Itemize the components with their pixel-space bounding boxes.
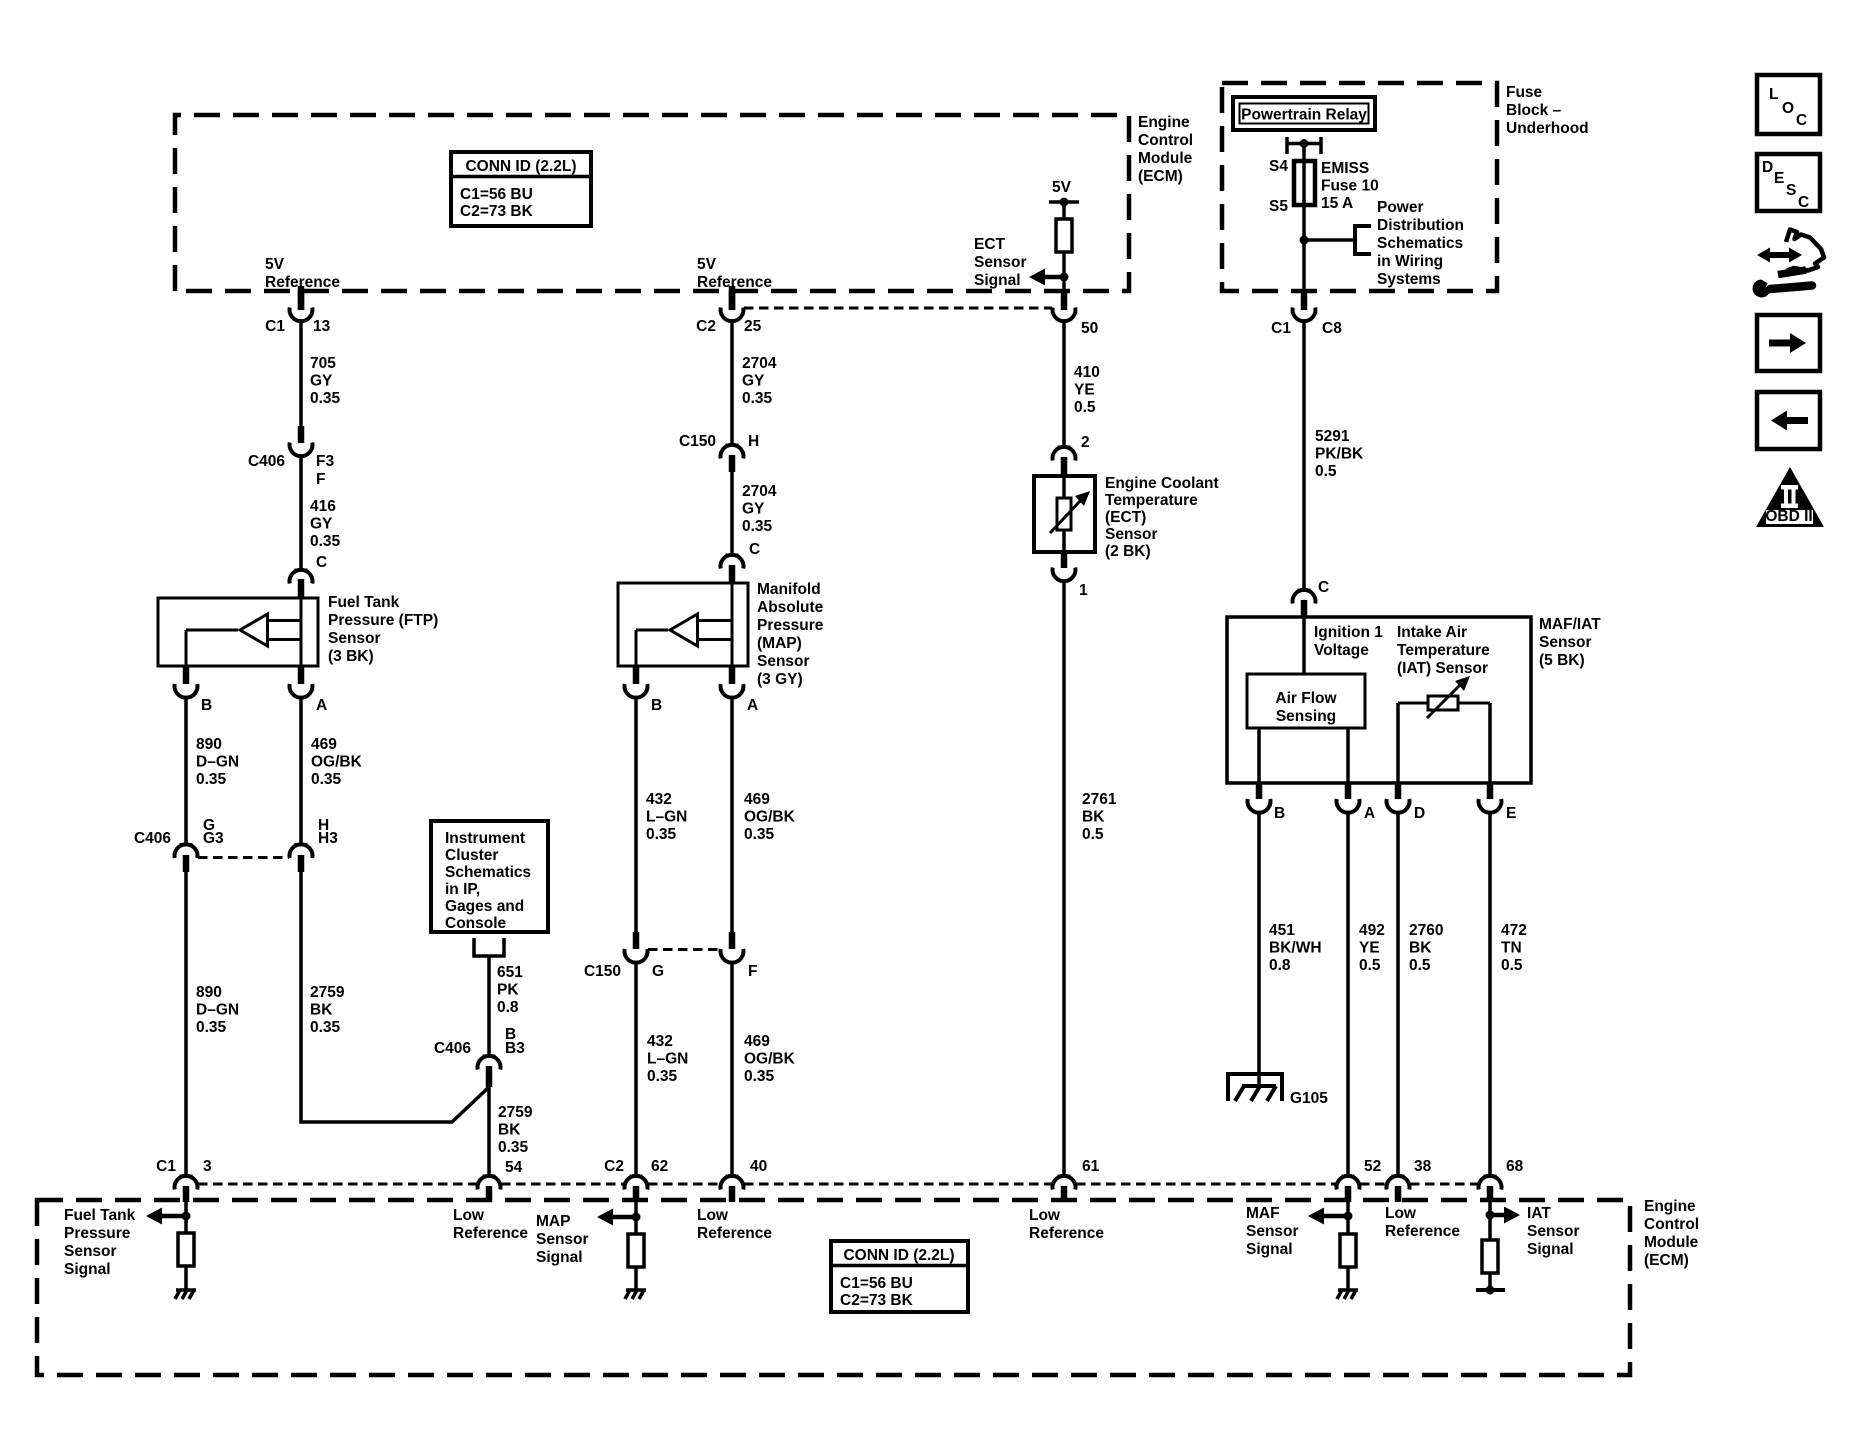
resistor pin3	[178, 1233, 194, 1266]
wire air flow pin A inner	[1346, 728, 1350, 783]
dashed link G F	[648, 948, 720, 951]
connector ECT pin 2	[1053, 447, 1076, 476]
connector C406 B3	[478, 1056, 501, 1087]
svg-text:38: 38	[1414, 1158, 1432, 1175]
connector MAF pin D	[1387, 783, 1410, 813]
connector MAF pin E	[1479, 783, 1502, 813]
connector ECT pin 1	[1053, 552, 1076, 581]
junction dot pin52	[1344, 1212, 1353, 1221]
svg-text:54: 54	[505, 1159, 523, 1176]
junction dot pin62	[632, 1213, 641, 1222]
svg-text:A: A	[747, 697, 758, 714]
svg-text:C1: C1	[156, 1158, 176, 1175]
wire 651 PK	[487, 956, 491, 1056]
svg-text:D: D	[1414, 805, 1425, 822]
wire pin62 to junction	[634, 1202, 638, 1234]
connector FTP pin B	[175, 666, 198, 698]
connector C2 pin 25	[721, 291, 744, 321]
wire 890 D-GN upper	[184, 697, 188, 844]
power distribution bracket	[1355, 224, 1371, 256]
wire relay to fuse	[1302, 144, 1306, 162]
icon DESC box	[1757, 154, 1820, 211]
FTP sensor box	[158, 598, 318, 666]
svg-text:C: C	[749, 541, 760, 558]
MAF IAT sensor box	[1227, 617, 1531, 783]
svg-text:C2=73 BK: C2=73 BK	[460, 203, 534, 220]
junction dot power distribution tap	[1300, 236, 1309, 245]
wire 2704 GY lower	[730, 472, 734, 555]
svg-text:13: 13	[313, 318, 331, 335]
wire fuse to junction	[1302, 205, 1306, 240]
dashed link G3 H3	[198, 856, 289, 859]
resistor pin62	[628, 1234, 644, 1267]
wire 432 L-GN lower	[634, 962, 638, 1176]
svg-text:C406: C406	[134, 830, 171, 847]
wire 410 YE	[1062, 320, 1066, 447]
icon arrow right box	[1757, 315, 1820, 371]
connector C150 F	[721, 932, 744, 963]
Fuse Block - Underhood dashed box	[1222, 83, 1497, 291]
stub 5V ref mid	[729, 286, 736, 310]
icon wrench tool	[1753, 230, 1824, 298]
svg-text:C8: C8	[1322, 320, 1342, 337]
svg-text:B3: B3	[505, 1040, 525, 1057]
connector C1 pin 13	[290, 291, 313, 321]
svg-text:B: B	[1274, 805, 1285, 822]
svg-text:40: 40	[750, 1158, 767, 1175]
wire 469 OG/BK map upper	[730, 697, 734, 932]
icon OBD II triangle	[1756, 467, 1824, 527]
wire 5V to resistor	[1062, 202, 1066, 219]
arrow IAT sensor signal	[1504, 1207, 1520, 1224]
svg-text:C2: C2	[696, 318, 716, 335]
svg-text:1: 1	[1079, 582, 1088, 599]
connector MAF pin C	[1293, 590, 1316, 617]
dotted link bottom row	[198, 1183, 477, 1186]
svg-text:C1=56 BU: C1=56 BU	[460, 186, 533, 203]
wire resistor to junction	[1062, 252, 1066, 291]
connector pin 40	[721, 1176, 744, 1202]
svg-text:H: H	[748, 433, 759, 450]
stub 5V ref left	[298, 286, 305, 310]
wire 5291 PK/BK	[1302, 320, 1306, 590]
wire 890 D-GN lower	[184, 872, 188, 1176]
svg-text:C: C	[316, 554, 327, 571]
ground G105	[1228, 1074, 1282, 1101]
FTP amplifier symbol	[186, 598, 301, 666]
svg-text:A: A	[1364, 805, 1375, 822]
svg-text:C: C	[1796, 112, 1807, 129]
svg-text:F3: F3	[316, 453, 334, 470]
svg-text:S: S	[1786, 182, 1796, 199]
arrow ECT sensor signal	[1029, 269, 1045, 286]
svg-text:C2=73 BK: C2=73 BK	[840, 1292, 914, 1309]
connector FTP pin A	[290, 666, 313, 698]
5V supply bar	[1049, 198, 1079, 207]
svg-text:O: O	[1782, 100, 1794, 117]
connector pin 38	[1387, 1176, 1410, 1202]
wire junction to bracket	[1304, 238, 1354, 242]
ECT thermistor symbol	[1050, 476, 1090, 552]
connector FTP pin C	[290, 570, 313, 598]
Air Flow Sensing box	[1247, 674, 1365, 728]
connector pin 52	[1337, 1176, 1360, 1202]
svg-text:Powertrain Relay: Powertrain Relay	[1241, 107, 1367, 124]
svg-text:C406: C406	[434, 1040, 471, 1057]
ground pin62	[625, 1290, 646, 1299]
CONN ID table bottom	[831, 1241, 968, 1312]
wire pin68 resistor to termination	[1488, 1273, 1492, 1290]
wire 472 TN	[1488, 812, 1492, 1176]
resistor pin52	[1340, 1234, 1356, 1267]
wire 2759 BK lower	[487, 1087, 491, 1176]
wire pin3 to junction	[184, 1202, 188, 1233]
svg-text:S4: S4	[1269, 158, 1288, 175]
svg-text:62: 62	[651, 1158, 668, 1175]
connector pin 50	[1053, 291, 1076, 321]
wire 2761 BK	[1062, 581, 1066, 1176]
svg-text:G3: G3	[203, 830, 224, 847]
svg-text:CONN ID (2.2L): CONN ID (2.2L)	[465, 158, 576, 175]
svg-text:C1=56 BU: C1=56 BU	[840, 1275, 913, 1292]
wire 469 OG/BK map lower	[730, 962, 734, 1176]
svg-text:C150: C150	[584, 963, 621, 980]
svg-text:C406: C406	[248, 453, 285, 470]
ECT sensor box	[1034, 476, 1095, 552]
svg-text:52: 52	[1364, 1158, 1381, 1175]
svg-text:D: D	[1762, 159, 1773, 176]
svg-text:C150: C150	[679, 433, 716, 450]
svg-text:S5: S5	[1269, 198, 1288, 215]
connector MAP pin B	[625, 666, 648, 698]
svg-text:F: F	[748, 963, 757, 980]
wire 416 GY	[299, 455, 303, 570]
CONN ID table top	[451, 152, 591, 226]
arrow MAP sensor signal	[597, 1209, 613, 1226]
svg-text:F: F	[316, 471, 325, 488]
connector MAF pin B	[1248, 783, 1271, 813]
svg-text:E: E	[1506, 805, 1516, 822]
wire 705 GY	[299, 320, 303, 426]
svg-text:G: G	[652, 963, 664, 980]
Instrument Cluster box	[431, 821, 548, 932]
wire fuse output to border	[1302, 240, 1306, 291]
wire 432 L-GN upper	[634, 697, 638, 932]
svg-text:Sensing: Sensing	[1276, 708, 1336, 725]
svg-text:L: L	[1769, 86, 1778, 103]
connector MAP pin A	[721, 666, 744, 698]
connector C406 G3	[175, 844, 198, 872]
wire pin52 to junction	[1346, 1202, 1350, 1234]
svg-text:OBD II: OBD II	[1765, 508, 1812, 525]
svg-text:E: E	[1774, 170, 1784, 187]
svg-text:5V: 5V	[1052, 179, 1072, 196]
connector C2 pin 62	[625, 1176, 648, 1202]
svg-text:CONN ID (2.2L): CONN ID (2.2L)	[843, 1247, 954, 1264]
wire 492 YE	[1346, 812, 1350, 1176]
wire ignition feed inside MAF	[1302, 617, 1306, 674]
svg-text:61: 61	[1082, 1158, 1100, 1175]
connector MAF pin A	[1337, 783, 1360, 813]
svg-text:C2: C2	[604, 1158, 624, 1175]
junction dot pin68	[1486, 1211, 1495, 1220]
ECM bottom dashed box	[37, 1200, 1630, 1375]
connector MAP pin C	[721, 555, 744, 583]
connector pin 68	[1479, 1176, 1502, 1202]
wire IAT pin D inner	[1396, 703, 1400, 783]
instrument cluster bracket	[474, 938, 504, 956]
wire 2704 GY upper	[730, 320, 734, 445]
connector C1 pin 3	[175, 1176, 198, 1202]
connector C406 H3	[290, 844, 313, 872]
MAP sensor box	[618, 583, 748, 666]
wire air flow pin B inner	[1257, 728, 1261, 783]
connector C406 F3	[290, 426, 313, 456]
svg-text:H3: H3	[318, 830, 338, 847]
resistor ECT pullup	[1056, 219, 1072, 252]
connector C150 G	[625, 932, 648, 963]
connector C1 pin C8	[1293, 291, 1316, 321]
icon LOC box	[1757, 75, 1820, 134]
wire 2760 BK	[1396, 812, 1400, 1176]
fuse EMISS Fuse 10 15A	[1294, 161, 1315, 205]
svg-text:C1: C1	[1271, 320, 1291, 337]
junction dot ECT signal	[1060, 273, 1069, 282]
arrow MAF sensor signal	[1308, 1208, 1324, 1225]
svg-text:B: B	[651, 697, 662, 714]
svg-text:50: 50	[1081, 320, 1098, 337]
svg-text:Air Flow: Air Flow	[1275, 690, 1337, 707]
MAP amplifier symbol	[636, 583, 732, 666]
relay contact bracket	[1287, 137, 1321, 154]
svg-text:G105: G105	[1290, 1090, 1328, 1107]
wire pin68 to junction	[1488, 1202, 1492, 1240]
dotted link 25 to 50	[744, 307, 1052, 310]
ECM top dashed box	[175, 115, 1129, 291]
Powertrain Relay box	[1233, 97, 1375, 130]
wire pin52 resistor to ground	[1346, 1267, 1350, 1290]
wire 2759 BK from H3	[301, 872, 489, 1122]
termination dot pin68	[1476, 1286, 1505, 1295]
svg-text:C1: C1	[265, 318, 285, 335]
svg-text:C: C	[1798, 194, 1809, 211]
svg-text:3: 3	[203, 1158, 212, 1175]
svg-text:25: 25	[744, 318, 762, 335]
icon arrow left box	[1757, 392, 1820, 449]
arrow fuel tank pressure sensor signal	[146, 1208, 162, 1225]
connector pin 61	[1053, 1176, 1076, 1202]
svg-text:A: A	[316, 697, 327, 714]
connector C150 H	[721, 445, 744, 472]
junction dot relay output	[1300, 139, 1309, 148]
connector pin 54	[478, 1176, 501, 1202]
wire pin3 resistor to ground	[184, 1266, 188, 1290]
wire 451 BK/WH	[1257, 812, 1261, 1086]
svg-text:C: C	[1318, 579, 1329, 596]
wire 469 OG/BK ftp	[299, 697, 303, 844]
ground pin3	[175, 1290, 196, 1299]
svg-text:2: 2	[1081, 434, 1090, 451]
wire pin62 resistor to ground	[634, 1267, 638, 1290]
wire IAT pin E inner	[1488, 703, 1492, 783]
svg-text:B: B	[201, 697, 212, 714]
resistor pin68	[1482, 1240, 1498, 1273]
junction dot pin3	[182, 1212, 191, 1221]
IAT thermistor symbol	[1398, 676, 1490, 718]
ground pin52	[1337, 1290, 1358, 1299]
svg-text:68: 68	[1506, 1158, 1524, 1175]
